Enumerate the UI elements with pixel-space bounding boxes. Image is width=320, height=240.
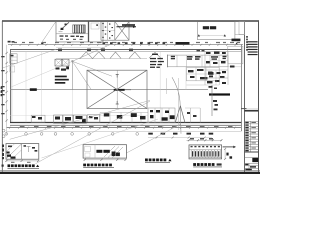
detail1 diagonals [6,144,21,159]
right rooms mid labels [188,69,214,79]
title block signature text [245,164,256,170]
duct wall vertical [211,85,213,116]
top band partition [102,22,104,43]
sheet right border [258,21,260,172]
mid horizontal line [10,89,208,91]
caption pump room [145,159,172,163]
top band bottom line [56,41,103,43]
grid dark tags [148,133,213,135]
main wall left outer [10,49,12,122]
schedule box A tick left [198,34,200,36]
elevator lobby marks [56,67,70,71]
roof zigzag 1 [80,52,105,59]
north arrow triangle [235,42,238,45]
upper interior line [56,58,147,60]
detail3 top dimension [187,138,223,141]
top dimension line [8,44,243,46]
stair arrow diagonal [59,22,70,32]
bottom band line [10,114,148,116]
detail1 frame [6,144,39,160]
toilet void cross [115,22,129,41]
main wall right [241,45,243,132]
north label text [232,39,241,42]
top band small room [91,23,99,29]
heavy dark bar [209,93,230,95]
top dimension ticks [11,44,237,46]
main wall bottom inner [10,124,242,126]
title block vertical text [246,36,248,51]
sheet bottom inner line [0,170,260,172]
leader diagonal c [10,100,150,139]
bottom room a [31,115,45,122]
left wall stair box [10,54,17,64]
right border tick [241,108,247,110]
leader diagonal d [42,119,159,158]
right rooms labels [171,56,227,60]
detail2 boxes [85,147,91,158]
schedule box A axis line [199,34,225,36]
void diagonal 2 [87,70,147,108]
void center line [116,70,118,108]
top dimension sub line [56,46,103,48]
title block mid heavy line [245,110,259,112]
main wall top inner [10,51,242,53]
detail2 frame [83,145,126,158]
top band wall mid [88,21,90,42]
left wall lower box [10,66,15,72]
schedule box A [197,22,235,40]
toilet leader arrow [117,24,137,28]
duct marks [209,86,219,110]
void diagonal 1 [87,70,147,108]
detail2 blob [112,152,120,157]
top wall door marks [58,48,133,51]
bottom room b [54,115,87,123]
left annotation rows [55,76,69,84]
roof zigzag 2 [110,52,161,58]
top dimension texts [14,42,240,43]
right rooms top row [167,55,241,90]
top band left wall [55,21,57,42]
title block revision table [245,121,259,152]
toilet partition 1 [101,22,115,41]
toilet fixtures [102,23,113,39]
title block stamp line [245,157,259,159]
right rooms mid row [187,61,229,85]
detail1 right marks [24,145,38,152]
leader diagonal a [36,101,151,164]
left dimension line [6,45,8,135]
funnel legs [175,106,185,123]
elevator 2 [62,59,69,66]
title block divider [244,21,246,172]
bottom dimension line 2 [7,131,242,133]
detail3 caption [193,163,222,167]
faint diagonal top-left [3,49,73,87]
main wall bottom outer [10,122,242,124]
schedule box B [235,22,245,35]
elevator 1 [55,59,62,66]
left dimension ticks [6,52,8,122]
grid bubbles [5,133,139,136]
void tee marks [116,75,119,105]
left grid bubbles [2,129,5,137]
detail2 hatch [104,146,123,158]
bottom room d [148,108,175,123]
legend rows [150,54,164,68]
top band room divider [56,33,89,35]
title block table end line [245,151,259,153]
detail3 right mark [226,153,232,159]
bottom room f [88,115,100,123]
detail2 text [96,150,109,153]
schedule box A tick right [224,34,226,36]
detail3 frame [189,145,222,159]
toilet partition 2 [114,22,116,41]
top-right inner box [197,46,243,64]
leader diagonal b [127,124,181,153]
staircase treads [73,25,85,33]
mid line dark tag 2 [114,89,131,91]
title block top cell [239,22,245,35]
top band room labels [60,35,84,39]
dense cluster speckles [205,51,235,85]
top band leader diagonal [41,22,56,44]
lower dimension line 3 [148,137,212,139]
margin dimension text [1,87,3,97]
mid line dark tag 1 [30,88,37,91]
ramp curve [172,77,181,134]
bottom room e [185,108,200,123]
detail1 caption [2,164,40,168]
title block revision text [245,122,256,151]
bottom dimension ticks [9,127,236,129]
detail3 cells dark [191,146,220,157]
top-left dim text bits [8,41,15,43]
main wall top outer [10,49,242,51]
top dimension dark text [176,42,190,45]
title block header rows [248,42,258,55]
title block mid thin line [245,108,259,110]
detail1 left marks [7,146,16,159]
detail3 comb [189,150,222,158]
title block signature rows [245,163,259,171]
detail3 vertical dimension [224,148,226,160]
detail2 dimension [84,159,127,161]
bottom dimension texts [20,126,233,127]
left dimension texts [1,56,4,114]
sheet bottom heavy border [0,172,260,174]
void rectangle [87,70,147,108]
detail3 arrow [223,146,236,149]
toilet block outline [101,22,129,41]
wall vertical x166 [166,78,168,94]
sheet top border [2,20,259,22]
title block stamp dark box [252,158,258,162]
detail2 caption [83,164,114,168]
main wall left inner [11,53,13,122]
bottom dimension line [7,127,242,129]
column grid lines [26,52,160,123]
bottom room c [100,113,148,123]
sheet left border [1,21,3,172]
detail1 side text [2,145,4,160]
fan lines [72,45,113,90]
wall vertical x178 [177,78,179,130]
schedule box A label [203,26,216,29]
detail1 dimension [5,160,39,163]
toilet band dark ticks [103,42,166,44]
